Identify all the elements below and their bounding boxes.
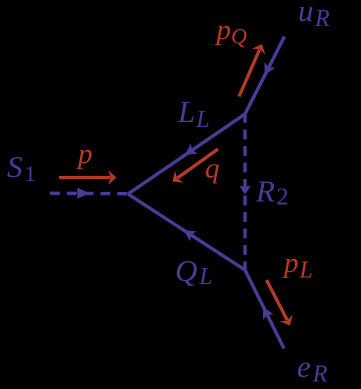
arrowhead on L_L line — [181, 144, 197, 161]
wire: u_R external fermion line — [245, 37, 285, 115]
wire: L_L fermion line (top edge of loop) — [128, 114, 245, 194]
momentum arrow p_L — [260, 277, 297, 329]
wire: e_R external fermion line — [245, 270, 284, 349]
arrow on S1 propagator — [77, 188, 89, 199]
arrowhead on e_R line — [258, 304, 274, 320]
arrow on R2 propagator — [240, 186, 251, 194]
svg-text:q: q — [205, 153, 220, 185]
momentum arrow p_Q — [232, 41, 269, 99]
wire: R2 scalar dashed propagator (right edge of loop) — [243, 113, 246, 270]
momentum arrow p — [59, 170, 117, 185]
arrowhead on Q_L line — [180, 225, 196, 241]
momentum arrow q — [168, 143, 222, 188]
wire: Q_L fermion line (bottom edge of loop) — [128, 194, 245, 270]
arrowhead on u_R line — [259, 62, 275, 78]
svg-text:p: p — [76, 138, 93, 170]
wire: S1 scalar dashed propagator — [50, 191, 128, 195]
